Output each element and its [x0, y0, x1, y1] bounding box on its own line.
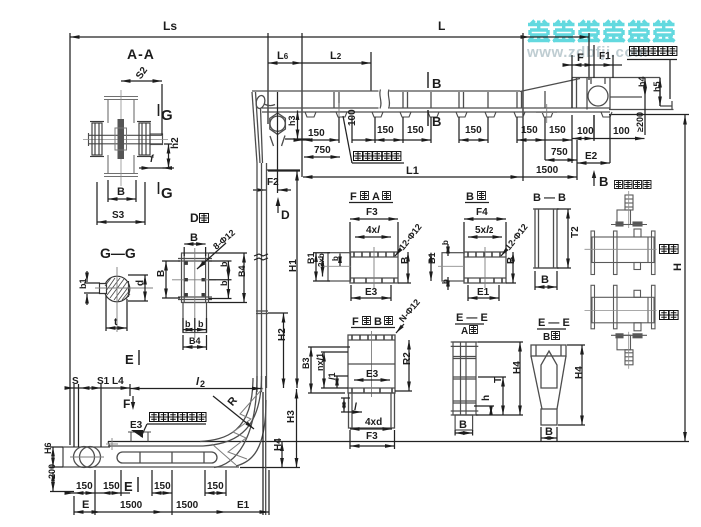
svg-text:B: B: [466, 191, 474, 203]
svg-text:H4: H4: [574, 366, 585, 379]
bottom dim row E 1500 1500 E1: [74, 496, 269, 515]
label 安装基准面: [627, 47, 677, 100]
E-E B funnel body: [531, 345, 566, 425]
svg-text:F: F: [352, 316, 359, 328]
svg-text:S1: S1: [97, 376, 110, 387]
svg-text:B: B: [459, 419, 467, 431]
dimension 200 left: [50, 472, 74, 492]
svg-text:l1: l1: [327, 372, 337, 380]
svg-text:L6: L6: [277, 50, 289, 62]
svg-text:A: A: [461, 326, 468, 337]
svg-text:H4: H4: [273, 438, 284, 451]
dimension E1: [468, 285, 499, 301]
B-B body: [533, 209, 559, 268]
svg-text:A: A: [372, 191, 380, 203]
dimension B1 left (B view): [430, 253, 432, 281]
dimension E2: [577, 162, 610, 164]
svg-text:h2: h2: [170, 137, 181, 149]
dimension 5xl2: [468, 236, 502, 238]
dimension B right (F-A): [398, 252, 411, 283]
B view left inlet: [438, 253, 464, 281]
dimension F4: [464, 219, 506, 254]
dimension H1: [268, 171, 300, 388]
svg-text:L4: L4: [112, 376, 124, 387]
svg-text:F: F: [577, 52, 584, 64]
svg-text:150: 150: [521, 125, 538, 136]
conveyor bottom support tabs: [305, 112, 612, 117]
svg-text:B: B: [432, 76, 441, 91]
section mark G lower: [158, 182, 160, 194]
discharge opening center cross: [330, 103, 557, 123]
svg-text:B: B: [156, 270, 167, 277]
head and horizontal conveyor outline: [252, 78, 660, 164]
dimension E3 (F-A): [351, 285, 391, 301]
svg-text:150: 150: [377, 125, 394, 136]
svg-text:≥200: ≥200: [635, 112, 645, 132]
dimension L6: [268, 52, 371, 91]
svg-text:nxl1: nxl1: [315, 353, 325, 371]
F-B body lower: [349, 393, 395, 428]
svg-text:4xl: 4xl: [366, 225, 380, 236]
svg-text:B: B: [190, 232, 198, 244]
dimension T (E-E A): [478, 377, 506, 415]
dimension Ls top: [70, 33, 589, 445]
view mark D arrow: [277, 204, 279, 213]
svg-text:H3: H3: [286, 410, 297, 423]
svg-text:D: D: [190, 211, 199, 225]
F-A left inlet: [324, 253, 351, 281]
F-B body upper: [348, 331, 395, 397]
dimension H4 (boot): [240, 442, 300, 468]
svg-text:b: b: [441, 240, 450, 245]
svg-text:2xb: 2xb: [317, 253, 326, 267]
svg-text:100: 100: [613, 126, 630, 137]
svg-text:B: B: [545, 426, 553, 438]
svg-text:750: 750: [551, 147, 568, 158]
A-A sprocket hub: [118, 119, 125, 159]
svg-text:150: 150: [549, 125, 566, 136]
view F-B title: [351, 316, 395, 328]
dimension B (E-E A): [455, 430, 473, 436]
svg-text:b: b: [331, 256, 340, 261]
svg-text:B1: B1: [306, 252, 316, 264]
section mark B with up arrow: [592, 170, 596, 178]
svg-text:d: d: [135, 280, 146, 286]
dimension h3: [285, 111, 310, 140]
svg-text:150: 150: [308, 128, 325, 139]
svg-text:B: B: [374, 316, 382, 328]
svg-text:200: 200: [47, 464, 57, 479]
dimension B right (B view): [506, 252, 516, 283]
svg-text:H6: H6: [43, 442, 53, 454]
dimension B3 left: [308, 347, 350, 393]
svg-text:b1: b1: [78, 278, 88, 289]
dimension H4 (E-E B): [558, 345, 585, 425]
svg-text:F1: F1: [599, 51, 611, 62]
dimension B (E-E B): [541, 427, 557, 441]
A-A casing: [104, 97, 138, 177]
watermark company name: [528, 21, 675, 43]
svg-text:L: L: [438, 19, 445, 33]
dimension T2: [557, 209, 571, 268]
svg-text:B: B: [506, 257, 517, 264]
svg-text:G: G: [161, 185, 173, 202]
svg-text:F2: F2: [267, 177, 279, 188]
right-install figure: [585, 285, 657, 369]
left-install figure: [585, 191, 657, 275]
svg-text:A-A: A-A: [127, 46, 155, 62]
svg-text:E — E: E — E: [456, 312, 488, 324]
svg-text:1500: 1500: [536, 165, 559, 176]
svg-text:F3: F3: [366, 431, 378, 442]
dimension d: [128, 275, 148, 301]
dimension B1 left: [313, 253, 330, 281]
dimension 4xd: [350, 428, 392, 430]
A-A bearing right: [137, 122, 151, 157]
svg-text:T: T: [493, 377, 504, 383]
dimension F3: [350, 219, 398, 254]
dimension H3: [296, 389, 298, 468]
E-E A body: [451, 342, 479, 430]
svg-text:h5: h5: [652, 81, 662, 92]
dimension b bottom (B view): [447, 277, 449, 290]
svg-text:B: B: [541, 274, 549, 286]
G-G shaft circle hatched: [100, 276, 130, 302]
svg-text:b: b: [441, 279, 450, 284]
A-A bearing left: [90, 122, 104, 157]
svg-text:G: G: [161, 107, 173, 124]
section cut E3 triangle: [131, 430, 143, 438]
svg-text:150: 150: [76, 481, 93, 492]
svg-text:L1: L1: [406, 165, 419, 177]
svg-text:b: b: [198, 319, 204, 329]
svg-text:F3: F3: [366, 207, 378, 218]
boot horizontal casing: [63, 442, 239, 468]
vertical leg casing: [256, 163, 268, 392]
dimension l1: [334, 376, 348, 388]
boot crosshair: [106, 438, 118, 450]
svg-text:D: D: [281, 208, 290, 222]
svg-text:E3: E3: [366, 369, 379, 380]
dimension H4 (E-E A): [478, 342, 523, 415]
dimension R2: [395, 340, 412, 391]
dimensions b b bottom (D view): [183, 318, 207, 333]
dimension 750 right: [545, 159, 577, 161]
dimension nxl1: [321, 352, 348, 388]
dimension t: [106, 295, 127, 331]
svg-text:R2: R2: [402, 352, 413, 365]
svg-text:F4: F4: [476, 207, 488, 218]
svg-text:1500: 1500: [176, 500, 199, 511]
svg-text:750: 750: [314, 145, 331, 156]
svg-text:4xd: 4xd: [365, 417, 382, 428]
svg-text:E: E: [125, 352, 134, 367]
view B title: [465, 191, 489, 203]
svg-text:150: 150: [103, 481, 120, 492]
svg-text:B: B: [432, 114, 441, 129]
svg-text:E: E: [82, 499, 89, 511]
dimension S2: [121, 81, 162, 135]
dimension R leader: [213, 396, 254, 429]
D view body: [172, 248, 216, 338]
tail wheels: [70, 447, 104, 468]
svg-text:S3: S3: [112, 210, 125, 221]
section mark B upper: [427, 72, 429, 88]
svg-text:H4: H4: [512, 361, 523, 374]
section E-E B title: [537, 317, 570, 343]
svg-text:H1: H1: [288, 259, 299, 272]
leg break symbol: [254, 254, 268, 260]
svg-text:150: 150: [465, 125, 482, 136]
svg-text:150: 150: [407, 125, 424, 136]
dimension 4xl: [355, 236, 391, 238]
dimension F2: [253, 92, 300, 193]
curve chain zigzag: [212, 388, 263, 465]
B view body: [464, 247, 506, 288]
svg-text:B: B: [599, 174, 608, 189]
dimension B (B-B): [535, 271, 557, 290]
svg-text:l: l: [354, 402, 357, 413]
dimension F: [563, 45, 622, 108]
head drive box right: [587, 78, 674, 110]
svg-text:B4: B4: [189, 336, 201, 346]
svg-text:b: b: [185, 319, 191, 329]
svg-text:B: B: [543, 332, 550, 343]
section E-E A title: [455, 312, 488, 337]
svg-text:100: 100: [577, 126, 594, 137]
section mark G upper: [158, 104, 160, 116]
svg-text:1500: 1500: [120, 500, 143, 511]
dimension H6: [50, 447, 63, 467]
svg-text:b: b: [219, 261, 229, 267]
svg-text:2: 2: [200, 379, 205, 389]
svg-text:B4: B4: [237, 265, 247, 277]
dimension 750 left: [304, 156, 340, 158]
conveyor joint ticks: [334, 78, 577, 108]
bottom dim row 150s: [66, 392, 269, 515]
svg-text:b: b: [219, 280, 229, 286]
svg-text:L2: L2: [330, 50, 342, 62]
svg-text:5xl2: 5xl2: [475, 225, 494, 236]
F-A body: [350, 247, 398, 288]
svg-text:h: h: [481, 395, 492, 401]
dimension b1: [84, 271, 100, 305]
dimension H2: [268, 313, 288, 388]
conveyor dim row 150/100: [296, 115, 645, 163]
A-A shaft: [89, 133, 163, 146]
svg-text:150: 150: [154, 481, 171, 492]
svg-text:150: 150: [207, 481, 224, 492]
view mark F down arrow: [131, 402, 135, 410]
svg-text:B1: B1: [427, 252, 437, 264]
label left-install: [660, 245, 669, 254]
svg-text:E1: E1: [477, 287, 490, 298]
svg-text:B — B: B — B: [533, 192, 566, 204]
label 中间卸料口: [343, 116, 404, 163]
boot chain slot: [117, 452, 217, 463]
svg-text:B: B: [117, 186, 125, 198]
dimension B (A-A): [108, 180, 136, 202]
dimension E3 (F-B): [354, 379, 390, 381]
svg-text:h3: h3: [287, 115, 297, 126]
svg-text:E — E: E — E: [538, 317, 570, 329]
svg-text:E: E: [124, 479, 133, 494]
dimension B4 bottom (D view): [183, 335, 207, 350]
dimension B left (D view): [162, 261, 180, 298]
dimension B top (D view): [184, 244, 205, 256]
svg-text:H2: H2: [277, 328, 288, 341]
dimension F3 (F-B): [350, 430, 395, 449]
svg-text:E2: E2: [585, 151, 598, 162]
svg-text:B: B: [400, 257, 411, 264]
feed centerline label 加料口中心线: [141, 413, 206, 438]
dimension b: [339, 254, 341, 267]
svg-text:G—G: G—G: [100, 245, 136, 261]
svg-text:E1: E1: [237, 500, 250, 511]
svg-text:H: H: [672, 263, 684, 271]
section mark B lower: [427, 110, 429, 126]
dimension B4 right (D view): [209, 253, 247, 303]
dimensions b b right (D view): [209, 261, 232, 299]
svg-text:E3: E3: [365, 287, 378, 298]
svg-text:h4: h4: [637, 76, 647, 87]
dimension h (E-E A): [474, 406, 523, 415]
dimension h2: [151, 144, 172, 168]
dimension f: [139, 167, 174, 169]
svg-text:E3: E3: [130, 420, 143, 431]
dimension 2xb: [322, 257, 324, 277]
svg-text:T2: T2: [570, 226, 581, 238]
svg-text:F: F: [123, 397, 130, 411]
dimension L1: [303, 140, 577, 180]
boot long top line: [108, 441, 689, 443]
curve transition chute: [200, 376, 266, 515]
conveyor break symbol: [379, 89, 390, 110]
dimension row S S1 L4 l2: [66, 384, 262, 447]
svg-text:100: 100: [347, 109, 358, 126]
dimension h4: [644, 78, 646, 135]
dimension l small: [341, 398, 362, 412]
label 装配形式: [615, 181, 652, 189]
view F-A title: [349, 191, 393, 203]
svg-text:Ls: Ls: [163, 19, 177, 33]
svg-text:S: S: [72, 376, 79, 387]
dimension H overall: [684, 115, 686, 442]
dimension S3: [97, 182, 145, 225]
dimension b top: [447, 244, 449, 256]
svg-text:F: F: [350, 191, 357, 203]
feed chute on boot: [128, 432, 151, 442]
dimension h5: [659, 78, 661, 106]
label right-install: [660, 311, 669, 320]
svg-text:B3: B3: [301, 357, 311, 369]
